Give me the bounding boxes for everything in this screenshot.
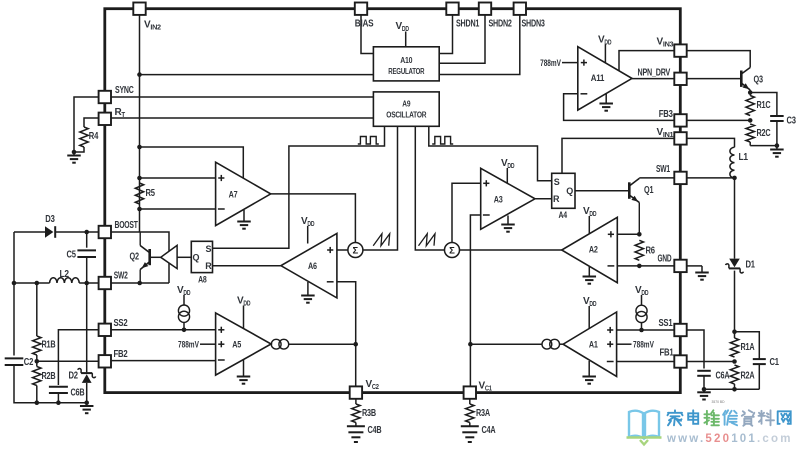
wire A3 minus to VC1 rail [470, 215, 480, 386]
wire A6 output to A8 R [213, 265, 281, 267]
wire A4 Q to Q1 base [575, 190, 629, 192]
wire output bottom rail [704, 388, 759, 390]
ground under A3 [507, 216, 509, 225]
ground under A11 [605, 94, 607, 104]
resistor R4 [84, 118, 99, 127]
svg-text:A4: A4 [559, 210, 568, 220]
wire VIN2 vertical rail [139, 12, 141, 232]
svg-text:R3A: R3A [476, 408, 490, 419]
diode D3 [45, 226, 53, 238]
pin SHDN3 [514, 3, 526, 15]
svg-text:R3B: R3B [362, 408, 376, 419]
capacitor C1 [735, 332, 760, 359]
latch A4 [552, 173, 575, 208]
svg-text:A9: A9 [402, 99, 410, 109]
svg-text:C6B: C6B [71, 388, 85, 399]
svg-text:D1: D1 [746, 260, 756, 271]
pin FB2 [99, 355, 111, 367]
pin VC2 [350, 386, 362, 398]
wire SW2 external [14, 282, 50, 284]
summing node sum2 [445, 243, 460, 258]
resistor R1A [734, 332, 736, 338]
pin SHDN2 [479, 3, 491, 15]
inductor L1 [730, 147, 735, 178]
wire SW1 to L1/D1 node [687, 177, 735, 179]
svg-text:R2B: R2B [42, 371, 56, 382]
transistor Q2 [150, 256, 161, 258]
svg-text:OSCILLATOR: OSCILLATOR [386, 110, 427, 120]
wire SW2 rail [99, 282, 169, 284]
watermark site name [668, 410, 683, 425]
svg-text:BIAS: BIAS [355, 19, 374, 30]
wire oscillator out to A4 S input [429, 126, 552, 181]
svg-text:R1A: R1A [741, 342, 755, 353]
clock pulse symbol right [432, 137, 453, 145]
wire FB2 external [37, 360, 99, 362]
IC outline border [105, 9, 681, 393]
wire A11 output to NPN_DRV [632, 78, 674, 80]
pin SHDN1 [446, 3, 458, 15]
summing node sum1 [348, 243, 363, 258]
svg-text:C1: C1 [770, 357, 780, 368]
sawtooth symbol right [419, 234, 436, 246]
wire VIN3 to Q3 collector [687, 51, 751, 68]
svg-text:SW2: SW2 [114, 270, 128, 281]
pin SS1 [674, 324, 686, 336]
pin VC1 [464, 386, 476, 398]
wire R2C bottom to ground node [749, 142, 751, 146]
svg-text:SW1: SW1 [656, 164, 670, 175]
transistor Q1 [628, 182, 631, 199]
pin RT [99, 113, 111, 125]
svg-text:R1B: R1B [42, 339, 56, 350]
svg-text:Q: Q [566, 186, 573, 196]
svg-text:A7: A7 [229, 189, 238, 200]
svg-text:FB1: FB1 [660, 347, 674, 358]
wire FB3 node [687, 119, 751, 121]
wire oscillator ramp to sum1 [363, 126, 398, 250]
resistor R2B [36, 355, 38, 367]
svg-text:SS2: SS2 [114, 318, 128, 329]
op-amp A6 [281, 233, 337, 298]
svg-text:3570 BD: 3570 BD [712, 399, 725, 404]
resistor R1B [36, 283, 38, 336]
wire A1 output to VC1 rail [470, 343, 542, 345]
pin FB1 [674, 355, 686, 367]
svg-text:A1: A1 [589, 340, 599, 351]
clock pulse symbol left [358, 137, 379, 145]
resistor R3B [352, 404, 360, 423]
wire SHDN2 to A10 [439, 12, 485, 63]
ground bottom left [86, 403, 88, 406]
current mirror A1 output [560, 343, 564, 345]
pin BIAS [355, 3, 367, 15]
svg-text:R2C: R2C [757, 128, 771, 139]
ground under A6 [307, 282, 309, 296]
wire C2 to bottom rail [14, 365, 87, 403]
diode D2 schottky [86, 283, 88, 372]
svg-text:Σ: Σ [449, 245, 455, 256]
svg-text:A2: A2 [589, 244, 598, 255]
svg-text:SS1: SS1 [659, 318, 673, 329]
pin SW2 [99, 277, 111, 289]
svg-text:www.520101.com: www.520101.com [666, 433, 793, 445]
resistor R6 [635, 240, 643, 260]
svg-text:R4: R4 [89, 131, 99, 142]
svg-text:L1: L1 [739, 152, 749, 163]
ground under A1 [588, 361, 590, 377]
svg-text:S: S [205, 244, 211, 254]
svg-text:SHDN3: SHDN3 [522, 19, 546, 30]
svg-text:A6: A6 [308, 261, 317, 272]
wire VC1 compensation [469, 399, 471, 404]
wire SYNC to oscillator [111, 96, 374, 98]
wire VIN1 supply to A4 [562, 138, 674, 173]
wire SYNC external [74, 97, 99, 152]
wire SW1 rail [639, 177, 674, 179]
pin SW1 [674, 172, 686, 184]
wire SS2 to A5 plus [111, 329, 216, 331]
wire FB1 node [687, 361, 735, 363]
svg-text:C4B: C4B [368, 425, 382, 436]
svg-text:788mV: 788mV [633, 339, 654, 349]
svg-text:GND: GND [658, 254, 672, 265]
svg-text:R6: R6 [646, 245, 656, 256]
svg-text:A10: A10 [400, 55, 412, 65]
wire left rail vertical [13, 232, 15, 356]
svg-text:C4A: C4A [482, 425, 496, 436]
wire BOOST rail [111, 232, 169, 283]
svg-text:788mV: 788mV [178, 339, 199, 349]
op-amp A7 [216, 162, 271, 225]
svg-text:788mV: 788mV [540, 58, 561, 68]
svg-text:C2: C2 [24, 357, 34, 368]
resistor R1C [746, 96, 754, 116]
regulator block A10 [373, 47, 439, 81]
op-amp A1 [563, 312, 617, 376]
wire VIN2 to A10 regulator input [140, 74, 374, 76]
svg-text:BOOST: BOOST [115, 220, 138, 231]
ground C3 [776, 146, 778, 150]
svg-text:R: R [553, 194, 560, 204]
resistor R3A [466, 404, 474, 423]
ground under A7 [243, 210, 245, 222]
wire A2 minus to GND pin [617, 265, 674, 267]
resistor R5 [135, 183, 143, 204]
pin VIN2 [133, 3, 145, 15]
svg-text:D3: D3 [45, 214, 55, 225]
wire FB2 to A5 minus [111, 360, 216, 362]
wire oscillator out to A8 S input [213, 126, 385, 248]
wire A6 minus to VC2 rail [337, 282, 356, 387]
wire FB1 to A1 minus [617, 361, 675, 363]
svg-text:D2: D2 [69, 370, 79, 381]
pin BOOST [99, 226, 111, 238]
svg-text:A5: A5 [232, 340, 242, 351]
svg-text:FB2: FB2 [114, 349, 128, 360]
wire A7 minus input [140, 208, 216, 210]
svg-text:C5: C5 [67, 249, 77, 260]
capacitor C3 [750, 93, 777, 116]
capacitor C4A ground stack [461, 425, 479, 427]
svg-text:Q3: Q3 [754, 75, 764, 86]
wire SHDN3 to A10 [439, 12, 520, 75]
wire sum2 to A3 plus [452, 183, 481, 242]
sawtooth symbol left [373, 234, 390, 246]
current source A1 soft-start [636, 305, 647, 316]
wire A7 plus input [140, 177, 216, 179]
svg-text:A8: A8 [198, 275, 207, 285]
oscillator block A9 [373, 92, 439, 126]
reference 788mV A1 [617, 343, 632, 345]
svg-text:FB3: FB3 [659, 109, 673, 120]
svg-text:R: R [205, 261, 212, 271]
wire A11 feedback to FB3 [564, 94, 675, 121]
capacitor C5 [86, 232, 88, 248]
wire VIN1 to L1 [687, 138, 735, 147]
wire A7 output to sum1 [271, 194, 356, 243]
pin GND [674, 260, 686, 272]
op-amp A2 [562, 217, 618, 282]
wire Q1 emitter to A2 plus [617, 233, 639, 235]
diode D1 schottky [734, 178, 736, 259]
wire D1 to output node [734, 271, 736, 332]
pin VIN1 [674, 132, 686, 144]
svg-text:REGULATOR: REGULATOR [388, 66, 425, 76]
svg-text:A11: A11 [591, 73, 605, 84]
svg-text:Q1: Q1 [644, 185, 654, 196]
svg-text:Q: Q [192, 253, 199, 263]
resistor R2C [746, 124, 754, 142]
wire SHDN1 to A10 [439, 12, 452, 54]
wire A5 output to VC2 rail [289, 343, 356, 345]
wire VIN3 tap to A11 [619, 51, 674, 71]
op-amp A3 [481, 168, 535, 229]
pin SYNC [99, 91, 111, 103]
wire D3 input rail [14, 231, 45, 233]
wire VC2 compensation [355, 399, 357, 404]
wire A3 output to A4 R [535, 198, 552, 200]
pin FB3 [674, 114, 686, 126]
pin SS2 [99, 324, 111, 336]
op-amp A5 [216, 313, 272, 375]
wire sum1 to A6 plus [337, 249, 348, 251]
latch A8 [191, 241, 212, 272]
ground R4 [73, 152, 75, 156]
pin NPN_DRV [674, 73, 686, 85]
capacitor C2 [5, 357, 24, 359]
ground under A2 [588, 266, 590, 276]
pin VIN3 [674, 44, 686, 56]
svg-text:R2A: R2A [741, 371, 755, 382]
op-amp A11 [578, 47, 632, 110]
svg-text:L2: L2 [60, 269, 70, 280]
watermark book logo [629, 411, 659, 438]
inductor L2 [50, 278, 80, 283]
capacitor C6B [49, 386, 68, 388]
svg-text:Σ: Σ [353, 245, 359, 256]
capacitor C6A [697, 370, 711, 372]
svg-text:S: S [554, 177, 560, 187]
wire SS1 to A1 plus [617, 329, 675, 331]
transistor Q3 [740, 71, 743, 87]
wire SS1 to C6A [687, 330, 705, 369]
svg-text:A3: A3 [494, 195, 503, 206]
wire A8 Q to driver [177, 256, 191, 258]
current source A5 soft-start [178, 305, 189, 316]
wire A2 output to sum2 [459, 249, 561, 251]
wire GND pin external [687, 265, 703, 267]
svg-text:R1C: R1C [757, 100, 771, 111]
capacitor C4B ground stack [347, 425, 365, 427]
wire BIAS to A10 [361, 12, 373, 54]
driver buffer triangle [161, 245, 177, 268]
svg-text:NPN_DRV: NPN_DRV [638, 68, 671, 79]
svg-text:Q2: Q2 [130, 252, 140, 263]
svg-text:SYNC: SYNC [115, 85, 134, 96]
svg-text:SHDN1: SHDN1 [456, 19, 480, 30]
svg-text:R5: R5 [146, 188, 156, 199]
svg-text:C6A: C6A [716, 371, 730, 382]
ground C6A [703, 389, 705, 392]
resistor R2A [730, 365, 738, 384]
svg-text:SHDN2: SHDN2 [489, 19, 513, 30]
current mirror A5 output [270, 343, 272, 345]
wire SS2 external to C6B [58, 330, 98, 385]
ground under A5 [243, 360, 245, 377]
svg-text:C3: C3 [787, 116, 797, 127]
wire RT to oscillator [111, 117, 374, 119]
wire A7 feedback tap [140, 147, 244, 178]
wire oscillator ramp to sum2 [415, 126, 444, 250]
